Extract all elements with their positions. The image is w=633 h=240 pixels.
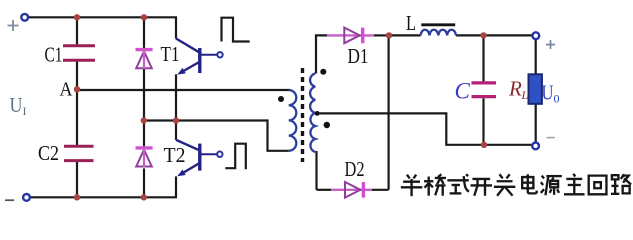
svg-text:D2: D2 (345, 157, 365, 181)
svg-text:T2: T2 (164, 143, 186, 167)
svg-text:U: U (542, 81, 554, 105)
svg-text:L: L (521, 88, 529, 102)
svg-text:I: I (23, 104, 27, 118)
svg-text:T1: T1 (161, 42, 180, 66)
svg-text:A: A (60, 79, 73, 101)
svg-text:C2: C2 (38, 141, 59, 165)
svg-text:L: L (406, 11, 416, 35)
svg-text:U: U (10, 93, 23, 117)
svg-text:C1: C1 (45, 43, 63, 67)
svg-text:R: R (508, 77, 522, 101)
svg-text:C: C (455, 79, 471, 104)
svg-text:D1: D1 (348, 44, 369, 68)
svg-text:0: 0 (554, 92, 560, 106)
